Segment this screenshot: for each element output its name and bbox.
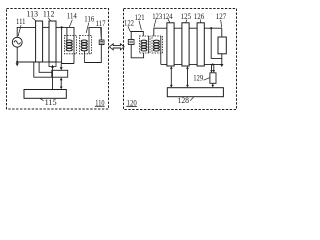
svg-text:112: 112: [43, 10, 55, 19]
svg-text:126: 126: [194, 12, 205, 21]
svg-text:110: 110: [95, 98, 104, 107]
svg-text:123: 123: [152, 12, 162, 21]
svg-text:111: 111: [16, 17, 26, 26]
svg-text:124: 124: [163, 12, 173, 21]
svg-text:122: 122: [124, 19, 134, 28]
svg-text:121: 121: [135, 13, 145, 22]
svg-text:120: 120: [127, 99, 137, 108]
svg-text:117: 117: [96, 19, 106, 28]
svg-text:114: 114: [67, 12, 77, 21]
svg-text:128: 128: [178, 96, 190, 105]
svg-text:116: 116: [84, 15, 94, 24]
svg-text:115: 115: [45, 98, 57, 107]
svg-text:125: 125: [181, 12, 192, 21]
svg-text:129: 129: [193, 73, 203, 82]
svg-text:113: 113: [27, 10, 39, 19]
svg-text:127: 127: [216, 12, 227, 21]
